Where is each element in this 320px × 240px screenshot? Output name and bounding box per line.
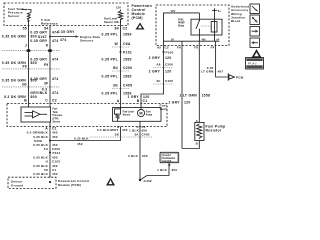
pin 56 C1 [44,168,56,172]
svg-text:C200: C200 [165,63,173,67]
svg-text:Module (PCM): Module (PCM) [58,183,81,187]
svg-text:F9: F9 [44,63,49,67]
relay actuation dotted [201,25,211,27]
svg-text:PUMP: PUMP [178,23,185,25]
pin 3C C405 [156,79,173,83]
label 0.3 DK GRN 800 [4,95,37,99]
pin W C6A [114,42,130,46]
fuel tank dashed box (contains FTP sensor and pump) [7,104,167,127]
svg-text:FP 14-2: FP 14-2 [248,62,257,65]
connector dashes right 2 [153,83,173,85]
svg-text:B: B [24,98,27,102]
connector row C100 [2,49,60,52]
svg-text:350: 350 [172,168,178,172]
pin 3A [115,132,140,136]
label 0.35 BLK 452 b [33,143,58,147]
svg-text:800: 800 [31,95,38,99]
svg-text:0.35 BLK: 0.35 BLK [33,172,48,176]
connector C405 bottom [90,132,152,137]
pin 54 [44,27,48,31]
label 0.35 DK GRN 800 row1 [2,35,37,39]
svg-text:P100: P100 [166,51,174,55]
B+ feed tick [212,8,221,13]
svg-text:J: J [25,44,27,48]
underhood junction block dashed box [156,5,229,46]
ground G402 [139,179,152,183]
relay coil wire to PCM [216,46,228,78]
svg-text:Pump: Pump [146,114,153,116]
svg-text:2 BLK: 2 BLK [128,154,139,158]
svg-text:Fuel: Fuel [146,111,151,113]
off page arrow PCM [228,73,243,81]
svg-text:F8: F8 [194,46,198,50]
sensor ground label [11,180,23,188]
connector row C200 [2,68,60,70]
fuel pump motor [137,109,144,116]
fuel level sender label [123,111,135,116]
svg-text:120: 120 [165,56,172,60]
svg-text:800: 800 [31,79,38,83]
svg-text:Reference: Reference [41,22,58,26]
grommet P101 [120,51,133,55]
internal FTP sensor circuit R + dot [27,10,31,23]
svg-text:S167: S167 [38,35,47,39]
pin J [25,44,27,48]
legend icon arrow left [250,38,260,48]
svg-text:(PCM): (PCM) [132,16,143,20]
svg-text:Sensor: Sensor [123,114,131,116]
pin 84 C2 [115,27,128,31]
svg-text:650: 650 [142,154,148,158]
svg-text:3B: 3B [115,132,120,136]
pin A C1 [45,127,57,131]
PCM triangle symbol [136,23,145,30]
svg-text:0.35 GRY: 0.35 GRY [58,30,76,34]
svg-text:40A: 40A [202,38,207,41]
connector dashes PPL 3 [112,88,130,90]
fuel pump label [146,111,153,116]
label 0.5 BLK/WHT 452 [97,128,128,132]
label 1 GRY 120 bypass [168,101,190,105]
svg-text:452: 452 [52,135,58,139]
wire 1 LT GRN 1558 [198,46,200,123]
wire PPL 1589 [118,20,121,109]
splice S167 [38,35,51,39]
pin A6 C200 [156,63,173,67]
svg-text:C2: C2 [52,98,57,102]
label 0.35 PPL 1589 row3 [101,75,131,79]
wire B GRY 474 [49,26,51,108]
svg-text:55: 55 [23,27,27,31]
pin 55 [23,27,27,31]
svg-text:800: 800 [31,35,38,39]
label 0.35 PPL 1589 row1 [101,33,131,37]
PCM bottom dashed box [8,177,56,188]
svg-text:G402: G402 [144,179,152,183]
FTP sensor label [53,109,64,124]
svg-text:Tank: Tank [53,112,59,114]
ground distribution cell box [160,152,179,163]
svg-text:1558: 1558 [202,94,211,98]
label 0.35 DK GRN 800 row4 [2,79,37,83]
svg-text:C6A: C6A [123,42,131,46]
svg-text:2 GRY: 2 GRY [149,56,161,60]
svg-text:487: 487 [218,70,224,74]
arrow to internal sensor circuit [22,9,29,11]
label 0.35 GRY 474 row1 [30,31,58,35]
svg-text:A6: A6 [156,63,160,67]
label 0.35 BLK 452 a [33,135,58,139]
svg-text:12V: 12V [171,9,176,13]
svg-text:C1: C1 [143,99,148,103]
svg-text:Sensor: Sensor [8,14,20,18]
PCM top dashed box [4,3,128,26]
connector dashes right 1 [153,67,173,69]
pin C C1 tank bottom [137,125,146,129]
ground branch wire [140,163,169,180]
svg-text:474: 474 [60,38,67,42]
grommet P101 lower [49,151,61,155]
legend icon twisted lead [250,4,260,14]
fuel pump resistor [195,119,204,146]
svg-text:B4: B4 [113,66,118,70]
svg-text:1589: 1589 [123,33,132,37]
pin F8 [22,64,27,68]
svg-text:Ground: Ground [162,155,171,157]
connector dashes PPL 1 [112,46,130,48]
svg-text:Sensor: Sensor [104,20,113,24]
connector row C405 [2,86,60,88]
svg-text:1 GRY: 1 GRY [168,101,180,105]
svg-text:F4: F4 [211,46,215,50]
legend title block [246,58,264,70]
pin F6 [177,46,181,50]
svg-text:C200: C200 [123,66,132,70]
svg-text:120: 120 [165,70,172,74]
relay coil [211,13,217,41]
svg-text:0.35 DK GRN: 0.35 DK GRN [2,35,26,39]
fuel pump resistor label [206,125,226,133]
svg-text:Distribution: Distribution [162,157,175,160]
pin C C2 [45,98,57,102]
label 0.35 PPL 1589 row2 [101,57,131,61]
label 0.3 GRY/BLK 474 [30,88,58,95]
FTP sensor inner box [21,107,51,122]
svg-text:120: 120 [184,101,191,105]
fuel pump relay box [191,19,222,35]
legend warning triangle [251,49,261,58]
svg-text:5A: 5A [171,38,174,41]
svg-text:474: 474 [52,77,59,81]
splice S408 [34,139,51,143]
branch wire to engine data sensors [50,35,79,37]
label 2 GRY 120 row1 [149,56,172,60]
svg-text:M: M [139,112,142,116]
svg-text:Sensors: Sensors [80,39,94,43]
label 1 BLK 350 [157,168,177,172]
svg-text:474: 474 [52,39,59,43]
svg-text:1589: 1589 [123,75,132,79]
svg-text:(FTP): (FTP) [53,118,59,120]
svg-text:P101: P101 [123,51,132,55]
PCM bottom triangle [106,178,115,186]
pin 3F [44,82,49,86]
underhood junction block label [231,5,249,23]
svg-text:3F: 3F [44,82,49,86]
wire 1 GRY 120 bypass [181,46,183,149]
svg-text:452: 452 [52,172,58,176]
label 0.35 DK GRN 800 row3 [2,61,37,65]
svg-text:F6: F6 [177,46,181,50]
wire 2 GRY 120 [141,46,164,109]
svg-text:Block: Block [231,19,241,23]
svg-text:84: 84 [115,27,119,31]
svg-text:0.35 BLK: 0.35 BLK [74,136,89,140]
svg-text:C2: C2 [123,27,128,31]
svg-text:2 GRY: 2 GRY [149,70,161,74]
svg-text:0.3 DK GRN: 0.3 DK GRN [4,95,26,99]
svg-text:1 LT GRN: 1 LT GRN [179,94,197,98]
branch label 0.35 BLK 452 [74,136,89,146]
pin B [24,98,27,102]
branch wire S408 to tank [50,127,121,141]
svg-text:W: W [114,42,118,46]
pin K [46,44,49,48]
svg-text:A: A [117,99,120,103]
svg-text:Resistor: Resistor [206,129,222,133]
pin F3 C200 [44,147,60,151]
pin A5 C2 [157,46,169,50]
label 0.5 ORN/BLK 452 [27,131,58,135]
svg-text:Ground: Ground [11,184,23,188]
svg-text:1589: 1589 [123,57,132,61]
pin A tank [117,99,120,103]
svg-text:1 BLK: 1 BLK [157,168,168,172]
svg-text:452: 452 [122,128,128,132]
PCM bottom label [58,179,90,187]
svg-text:PCM: PCM [236,76,244,80]
pin B4 C200 [113,66,132,70]
svg-text:0.35 PPL: 0.35 PPL [101,75,118,79]
svg-text:C2: C2 [165,46,169,50]
pin F4 [211,46,215,50]
pin 3G C405 [113,83,132,87]
svg-text:B: B [137,99,140,103]
fuel level sender symbol [115,109,121,121]
block pin drops [164,41,216,45]
label 1 GRY 120 tank [127,95,149,99]
svg-text:A5: A5 [157,46,161,50]
5 volt reference label [41,18,58,26]
label 0.35 BLK 452 e [33,172,58,176]
svg-text:Relay: Relay [178,26,185,28]
label 0.35 GRY 474 row4 [30,77,58,81]
svg-text:3A: 3A [134,132,139,136]
svg-text:F8: F8 [22,64,27,68]
PCM internal fuel level pull-up resistor [116,6,123,24]
svg-text:3C: 3C [156,79,161,83]
relay label [178,20,185,28]
svg-text:F3: F3 [44,147,48,151]
fuel level sensor label [104,17,120,24]
internal pin labels [171,38,220,41]
svg-text:FUEL: FUEL [178,20,185,22]
fuel tank label [160,104,168,112]
ground wire end dot [49,181,51,183]
FTP sensor op-amp symbol [25,111,48,118]
label 0.35 GRY 474 row2 [30,39,58,43]
svg-text:C405: C405 [142,132,150,136]
svg-text:3G: 3G [113,83,118,87]
svg-text:0.35 PPL: 0.35 PPL [101,33,118,37]
svg-text:452: 452 [77,142,83,146]
pin D tank bottom [117,125,120,129]
svg-text:Sensor: Sensor [53,122,61,124]
grommet P100 [163,51,174,55]
label 0.35 PPL 1589 row4 [101,92,131,96]
connector dashes PPL 2 [112,70,130,72]
fuel tank pressure sensor internal label [8,7,24,18]
wire A DK GRN 800 [28,22,30,108]
svg-text:C: C [45,98,48,102]
engine data sensors label [80,35,100,43]
label 0.35 BLK 452 c [33,156,58,160]
junction dot below GD cell [168,164,170,166]
pin 3G [22,83,27,87]
svg-text:3G: 3G [22,83,27,87]
branch label 0.35 GRY 474 [58,30,76,42]
pin F9 [44,63,49,67]
tank ground wire [139,121,141,180]
svg-text:P101: P101 [53,151,61,155]
pin F8 [194,46,198,50]
svg-text:800: 800 [31,61,38,65]
legend icon arrow right [250,27,260,37]
svg-text:0.35 PPL: 0.35 PPL [101,92,118,96]
label 1 BLK 650 [129,128,147,132]
svg-text:Fuel: Fuel [53,109,58,111]
label 0.35 GRY 474 row3 [30,58,58,62]
svg-text:K: K [46,44,49,48]
svg-text:0.35 GRY: 0.35 GRY [30,39,48,43]
fuel tank pump inner box [113,108,162,122]
svg-text:LT GRN: LT GRN [201,70,213,74]
label 0.35 LT GRN 487 [201,66,223,74]
PCM label right [132,4,153,20]
svg-text:Fuel Level: Fuel Level [123,111,135,113]
svg-text:C405: C405 [123,83,132,87]
relay switch [196,13,200,41]
pin H C103 [46,160,61,164]
FTP ground wire down [49,122,51,178]
legend icon shielded lead [250,15,260,25]
label 2 BLK 650 [128,154,148,158]
svg-text:Pressure: Pressure [53,115,64,117]
12V feed loop [164,9,220,41]
label 1 LT GRN 1558 [179,94,210,98]
pin B C1 tank [137,99,148,103]
svg-text:C405: C405 [165,79,173,83]
svg-text:0.35 PPL: 0.35 PPL [101,57,118,61]
label 0.35 BLK 452 d [33,164,58,168]
svg-text:Cell (14): Cell (14) [162,160,171,163]
svg-text:474: 474 [52,58,59,62]
svg-text:12V: 12V [116,6,121,10]
label 2 GRY 120 row2 [149,70,172,74]
svg-text:474: 474 [52,91,59,95]
resistor bottom wire [182,141,199,149]
